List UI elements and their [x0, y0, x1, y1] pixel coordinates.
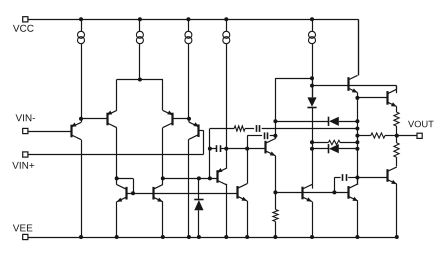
- wire C4 right lead: [348, 177, 357, 179]
- node Q10 emitter: [355, 96, 359, 100]
- node VCC rail junction 1: [79, 17, 83, 21]
- resistor R5: [394, 143, 399, 157]
- wire I2 to input pair emitters: [139, 44, 141, 79]
- wire R1 to C2: [245, 128, 254, 130]
- node D3 tap: [310, 147, 314, 151]
- wire R5 top: [396, 136, 398, 143]
- current source I4: [223, 31, 230, 43]
- wire Q3 collector down: [162, 128, 164, 179]
- wire C3 right lead: [270, 135, 276, 137]
- wire Q10 base row: [312, 85, 397, 87]
- wire to VOUT terminal: [397, 135, 417, 137]
- current source I1: [78, 31, 85, 43]
- wire Q14 emitter down: [396, 184, 398, 237]
- wire node A to Q2 base: [81, 118, 108, 120]
- wire Q13 emitter down: [357, 201, 359, 237]
- node gain node lower: [273, 134, 277, 138]
- transistor Q10: [348, 75, 358, 92]
- wire Q2 collector down: [116, 128, 118, 179]
- node out v1: [355, 119, 359, 123]
- wire VOUT row left: [357, 135, 370, 137]
- wire C1 right lead: [220, 148, 226, 150]
- wire Q8 collector up: [247, 149, 249, 184]
- wire riser x210: [209, 129, 211, 179]
- wire R2 row right: [340, 142, 357, 144]
- wire Q7 emitter down: [275, 156, 277, 193]
- wire VIN- to Q1 base: [28, 131, 72, 133]
- node Q14 emitter at VEE: [395, 235, 399, 239]
- transistor Q9: [217, 168, 227, 185]
- wire I1 to node A: [81, 44, 83, 119]
- node Q7 emitter row: [273, 190, 277, 194]
- current source I5: [309, 31, 316, 43]
- transistor Q11: [387, 89, 397, 106]
- wire input pair emitter bus: [117, 79, 163, 81]
- node VCC rail junction 4: [224, 17, 228, 21]
- node Q6 emitter at VEE: [161, 235, 165, 239]
- wire mirror base row: [126, 193, 237, 195]
- wire D2 row right: [339, 121, 358, 123]
- wire I2 top: [139, 19, 141, 31]
- node R6 at VEE: [273, 235, 277, 239]
- node VCC rail junction 3: [186, 17, 190, 21]
- terminal VCC: [23, 17, 28, 22]
- wire output node vertical: [357, 98, 359, 185]
- wire diode D4 top: [198, 178, 200, 199]
- wire VIN+ row to Q4 base riser: [28, 154, 204, 156]
- wire Q5 emitter down: [116, 202, 118, 237]
- node VOUT: [395, 134, 399, 138]
- node Q1 collector at VEE: [79, 235, 83, 239]
- capacitor C3: [265, 132, 268, 139]
- terminal VIN-: [23, 128, 28, 133]
- wire miller leg: [247, 136, 249, 149]
- node VCC rail junction 5: [310, 17, 314, 21]
- wire I4 top: [226, 19, 228, 31]
- wire Q1 collector down: [81, 140, 83, 237]
- node out v4: [355, 140, 359, 144]
- wire D3 row left: [312, 148, 328, 150]
- wire comp row elbow: [210, 128, 234, 130]
- wire VEE rail: [28, 237, 397, 239]
- node D4 top: [197, 176, 201, 180]
- diode D2: [329, 117, 339, 126]
- wire I3 top: [188, 19, 190, 31]
- wire R4 to VOUT node: [396, 126, 398, 136]
- node C4 leg: [332, 190, 336, 194]
- node Q12 emitter at VEE: [310, 235, 314, 239]
- node input pair emitters: [138, 78, 142, 82]
- wire Q5 base loop: [117, 178, 133, 180]
- diode D3: [329, 144, 339, 153]
- node B: [187, 117, 191, 121]
- node D4 at VEE: [197, 235, 201, 239]
- wire C2 to output node: [262, 128, 358, 130]
- transistor Q8: [238, 184, 248, 201]
- wire gain node vertical: [275, 78, 277, 136]
- wire Q7 collector up: [275, 136, 277, 139]
- wire node B to Q4 emitter: [188, 119, 190, 123]
- node VCC rail junction 2: [138, 17, 142, 21]
- wire Q10 emitter down: [357, 93, 359, 98]
- resistor R1: [234, 126, 245, 131]
- diode D1: [307, 97, 316, 107]
- wire I5 top: [312, 19, 314, 31]
- label VIN+: [12, 162, 34, 169]
- wire I1 top: [81, 19, 83, 31]
- node Q13 emitter at VEE: [355, 235, 359, 239]
- node out v2: [355, 127, 359, 131]
- node Q4 collector at VEE: [187, 235, 191, 239]
- wire I5 down to base node: [312, 78, 314, 97]
- resistor R3: [371, 133, 385, 138]
- transistor Q3: [163, 110, 173, 127]
- wire I5 to node C: [312, 44, 314, 97]
- wire Q4 collector down: [188, 139, 190, 237]
- node A: [79, 117, 83, 121]
- wire Q14 base row: [357, 177, 387, 179]
- transistor Q7: [266, 139, 276, 156]
- wire Q3 base to node B: [172, 118, 189, 120]
- transistor Q5: [117, 185, 127, 202]
- node out v6: [355, 176, 359, 180]
- wire Q13 collector up: [357, 178, 359, 185]
- wire lower base row: [275, 192, 349, 194]
- capacitor C1: [217, 145, 221, 152]
- label VEE: [13, 225, 33, 232]
- wire first stage output row: [163, 178, 218, 180]
- wire D4 bottom: [198, 210, 200, 237]
- node first stage output riser: [208, 176, 212, 180]
- wire C4 leg: [334, 178, 336, 193]
- terminal VEE: [23, 234, 28, 239]
- current source I3: [185, 31, 192, 43]
- wire Q6 collector up: [162, 178, 164, 184]
- node Q5 base: [131, 191, 135, 195]
- wire Q11 collector riser: [396, 86, 398, 94]
- wire Q12 emitter down: [312, 202, 314, 237]
- label VIN-: [16, 114, 36, 121]
- transistor Q1: [71, 122, 81, 139]
- node Q10 base link: [310, 84, 314, 88]
- wire Q3 emitter up: [162, 80, 164, 111]
- node Q5 collector: [115, 176, 119, 180]
- wire Q9 collector down: [226, 184, 228, 237]
- wire C1 left lead: [210, 148, 217, 150]
- node Q9 collector at VEE: [224, 235, 228, 239]
- transistor Q4: [189, 122, 199, 139]
- label VCC: [13, 25, 34, 32]
- wire Q1 emitter up: [81, 119, 83, 123]
- resistor R4: [394, 112, 399, 126]
- wire Q2 emitter up: [116, 80, 118, 111]
- node I5 link: [310, 76, 314, 80]
- resistor R2: [329, 140, 341, 144]
- resistor R6: [273, 210, 278, 222]
- node out v5: [355, 147, 359, 151]
- wire D3 row right: [339, 148, 358, 150]
- wire Q5 collector from Q2: [116, 178, 118, 184]
- transistor Q13: [349, 184, 359, 201]
- node D2 tap: [273, 119, 277, 123]
- diode D4: [194, 200, 203, 211]
- transistor Q6: [153, 185, 163, 202]
- node R2 tap: [310, 140, 314, 144]
- node C1 right: [224, 147, 228, 151]
- wire Q6 emitter down: [162, 202, 164, 237]
- wire VCC rail: [28, 19, 358, 21]
- node out v3: [355, 134, 359, 138]
- node Q5 emitter at VEE: [115, 235, 119, 239]
- wire R6 bottom: [275, 222, 277, 238]
- wire D1 bottom: [312, 107, 314, 184]
- terminal VIN+: [23, 152, 28, 157]
- wire Q10 emitter to Q11 base: [357, 97, 387, 99]
- node Q7 base row junction: [245, 147, 249, 151]
- node Q8 emitter at VEE: [245, 235, 249, 239]
- capacitor C2: [257, 125, 260, 132]
- transistor Q2: [107, 110, 117, 127]
- wire Q8 emitter down: [247, 201, 249, 237]
- wire Q12 collector up: [312, 185, 314, 189]
- wire Q11 emitter down: [396, 107, 398, 113]
- node C1 left: [208, 147, 212, 151]
- wire R6 top: [275, 192, 277, 209]
- terminal VOUT: [417, 133, 422, 138]
- capacitor C4: [343, 174, 347, 181]
- transistor Q12: [303, 184, 313, 201]
- wire R5 to Q14 collector: [396, 157, 398, 166]
- wire R2 row left: [312, 142, 329, 144]
- wire D2 row left: [275, 121, 328, 123]
- transistor Q14: [387, 167, 397, 184]
- wire I3 to node B: [188, 44, 190, 119]
- current source I2: [136, 31, 143, 43]
- wire VOUT row right: [385, 135, 397, 137]
- wire I4 to Q9 emitter: [226, 44, 228, 168]
- label VOUT: [408, 121, 434, 128]
- wire Q10 collector to rail: [358, 19, 360, 75]
- wire C1 node to Q7 base: [226, 148, 266, 150]
- node Q6 collector: [161, 176, 165, 180]
